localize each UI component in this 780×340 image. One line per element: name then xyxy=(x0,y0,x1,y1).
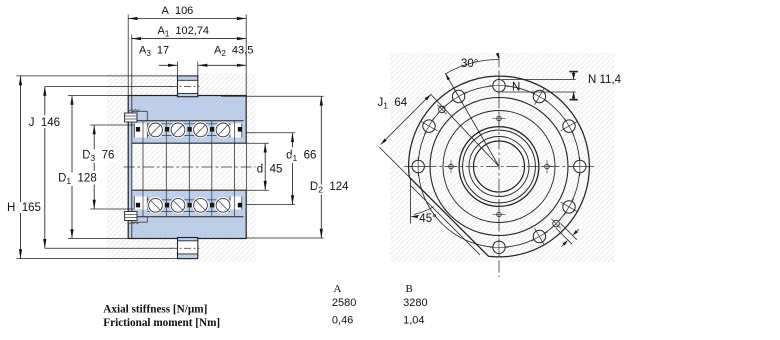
svg-text:A2 43,5: A2 43,5 xyxy=(214,45,253,59)
svg-text:N: N xyxy=(512,82,520,94)
svg-text:D3 76: D3 76 xyxy=(82,150,114,164)
svg-text:Frictional moment [Nm]: Frictional moment [Nm] xyxy=(103,317,220,329)
svg-text:1,04: 1,04 xyxy=(403,314,424,326)
svg-text:N 11,4: N 11,4 xyxy=(588,74,622,86)
svg-text:J1 64: J1 64 xyxy=(378,97,408,111)
svg-text:3280: 3280 xyxy=(403,297,427,309)
svg-text:D1 128: D1 128 xyxy=(58,173,97,187)
svg-text:H 165: H 165 xyxy=(7,202,41,214)
svg-text:A: A xyxy=(334,283,342,295)
svg-text:A3 17: A3 17 xyxy=(139,45,169,59)
svg-text:30°: 30° xyxy=(461,58,478,70)
svg-text:2580: 2580 xyxy=(332,297,356,309)
svg-text:A 106: A 106 xyxy=(162,5,194,17)
svg-text:D2 124: D2 124 xyxy=(310,181,349,195)
svg-text:Axial stiffness [N/µm]: Axial stiffness [N/µm] xyxy=(103,303,207,315)
svg-text:0,46: 0,46 xyxy=(332,314,353,326)
svg-text:d1 66: d1 66 xyxy=(286,150,316,164)
svg-text:J 146: J 146 xyxy=(29,117,60,129)
svg-text:B: B xyxy=(406,283,413,295)
svg-text:45°: 45° xyxy=(419,213,436,225)
svg-text:d 45: d 45 xyxy=(257,164,283,176)
